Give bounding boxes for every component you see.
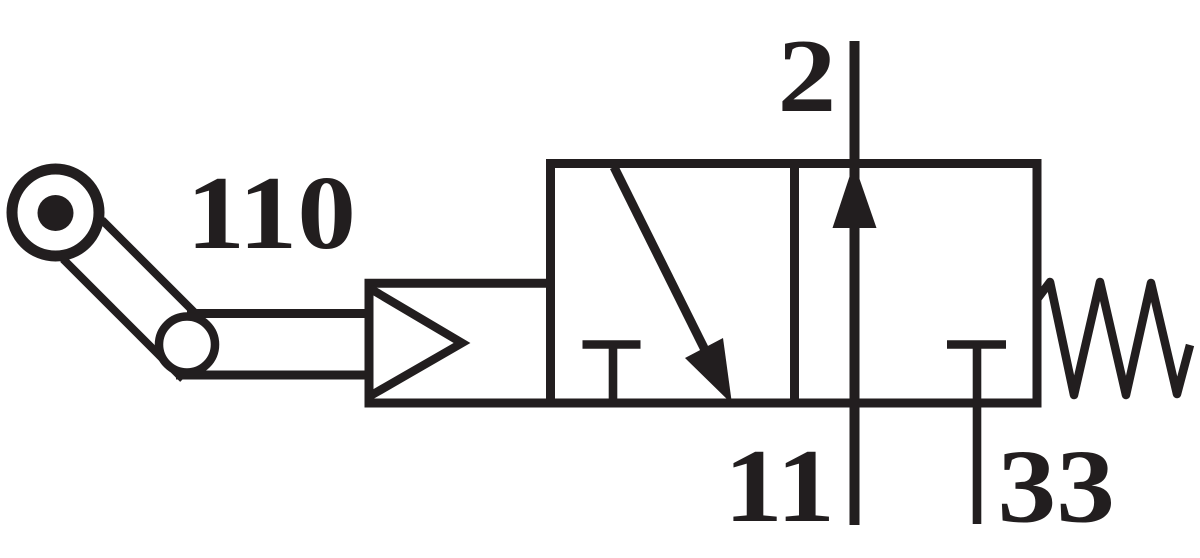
- svg-text:33: 33: [998, 429, 1116, 545]
- actuator box: [369, 283, 551, 403]
- port 3 stem: [973, 345, 982, 525]
- wire lever arm upper diagonal: [102, 220, 199, 317]
- svg-text:11: 11: [724, 429, 835, 545]
- actuator triangle: [370, 289, 462, 397]
- wire plunger bottom line: [176, 371, 371, 380]
- valve body outer box: [551, 164, 1038, 404]
- flow arrow diagonal (left chamber): [614, 167, 707, 354]
- flow arrow up (right chamber): [833, 163, 877, 228]
- wire lever arm lower diagonal: [63, 259, 183, 379]
- lever pivot circle: [159, 317, 215, 373]
- port 2 line: [850, 41, 860, 525]
- blocked port T (right chamber): [947, 340, 1006, 349]
- svg-text:110: 110: [186, 156, 356, 272]
- arrowhead down-right: [685, 338, 732, 404]
- roller pin dot: [38, 195, 74, 231]
- blocked port T (left chamber): [583, 340, 641, 349]
- spring: [1038, 282, 1190, 395]
- valve chamber divider: [790, 164, 799, 404]
- svg-text:2: 2: [778, 19, 837, 135]
- wire plunger top line: [187, 309, 371, 318]
- roller circle: [12, 169, 99, 256]
